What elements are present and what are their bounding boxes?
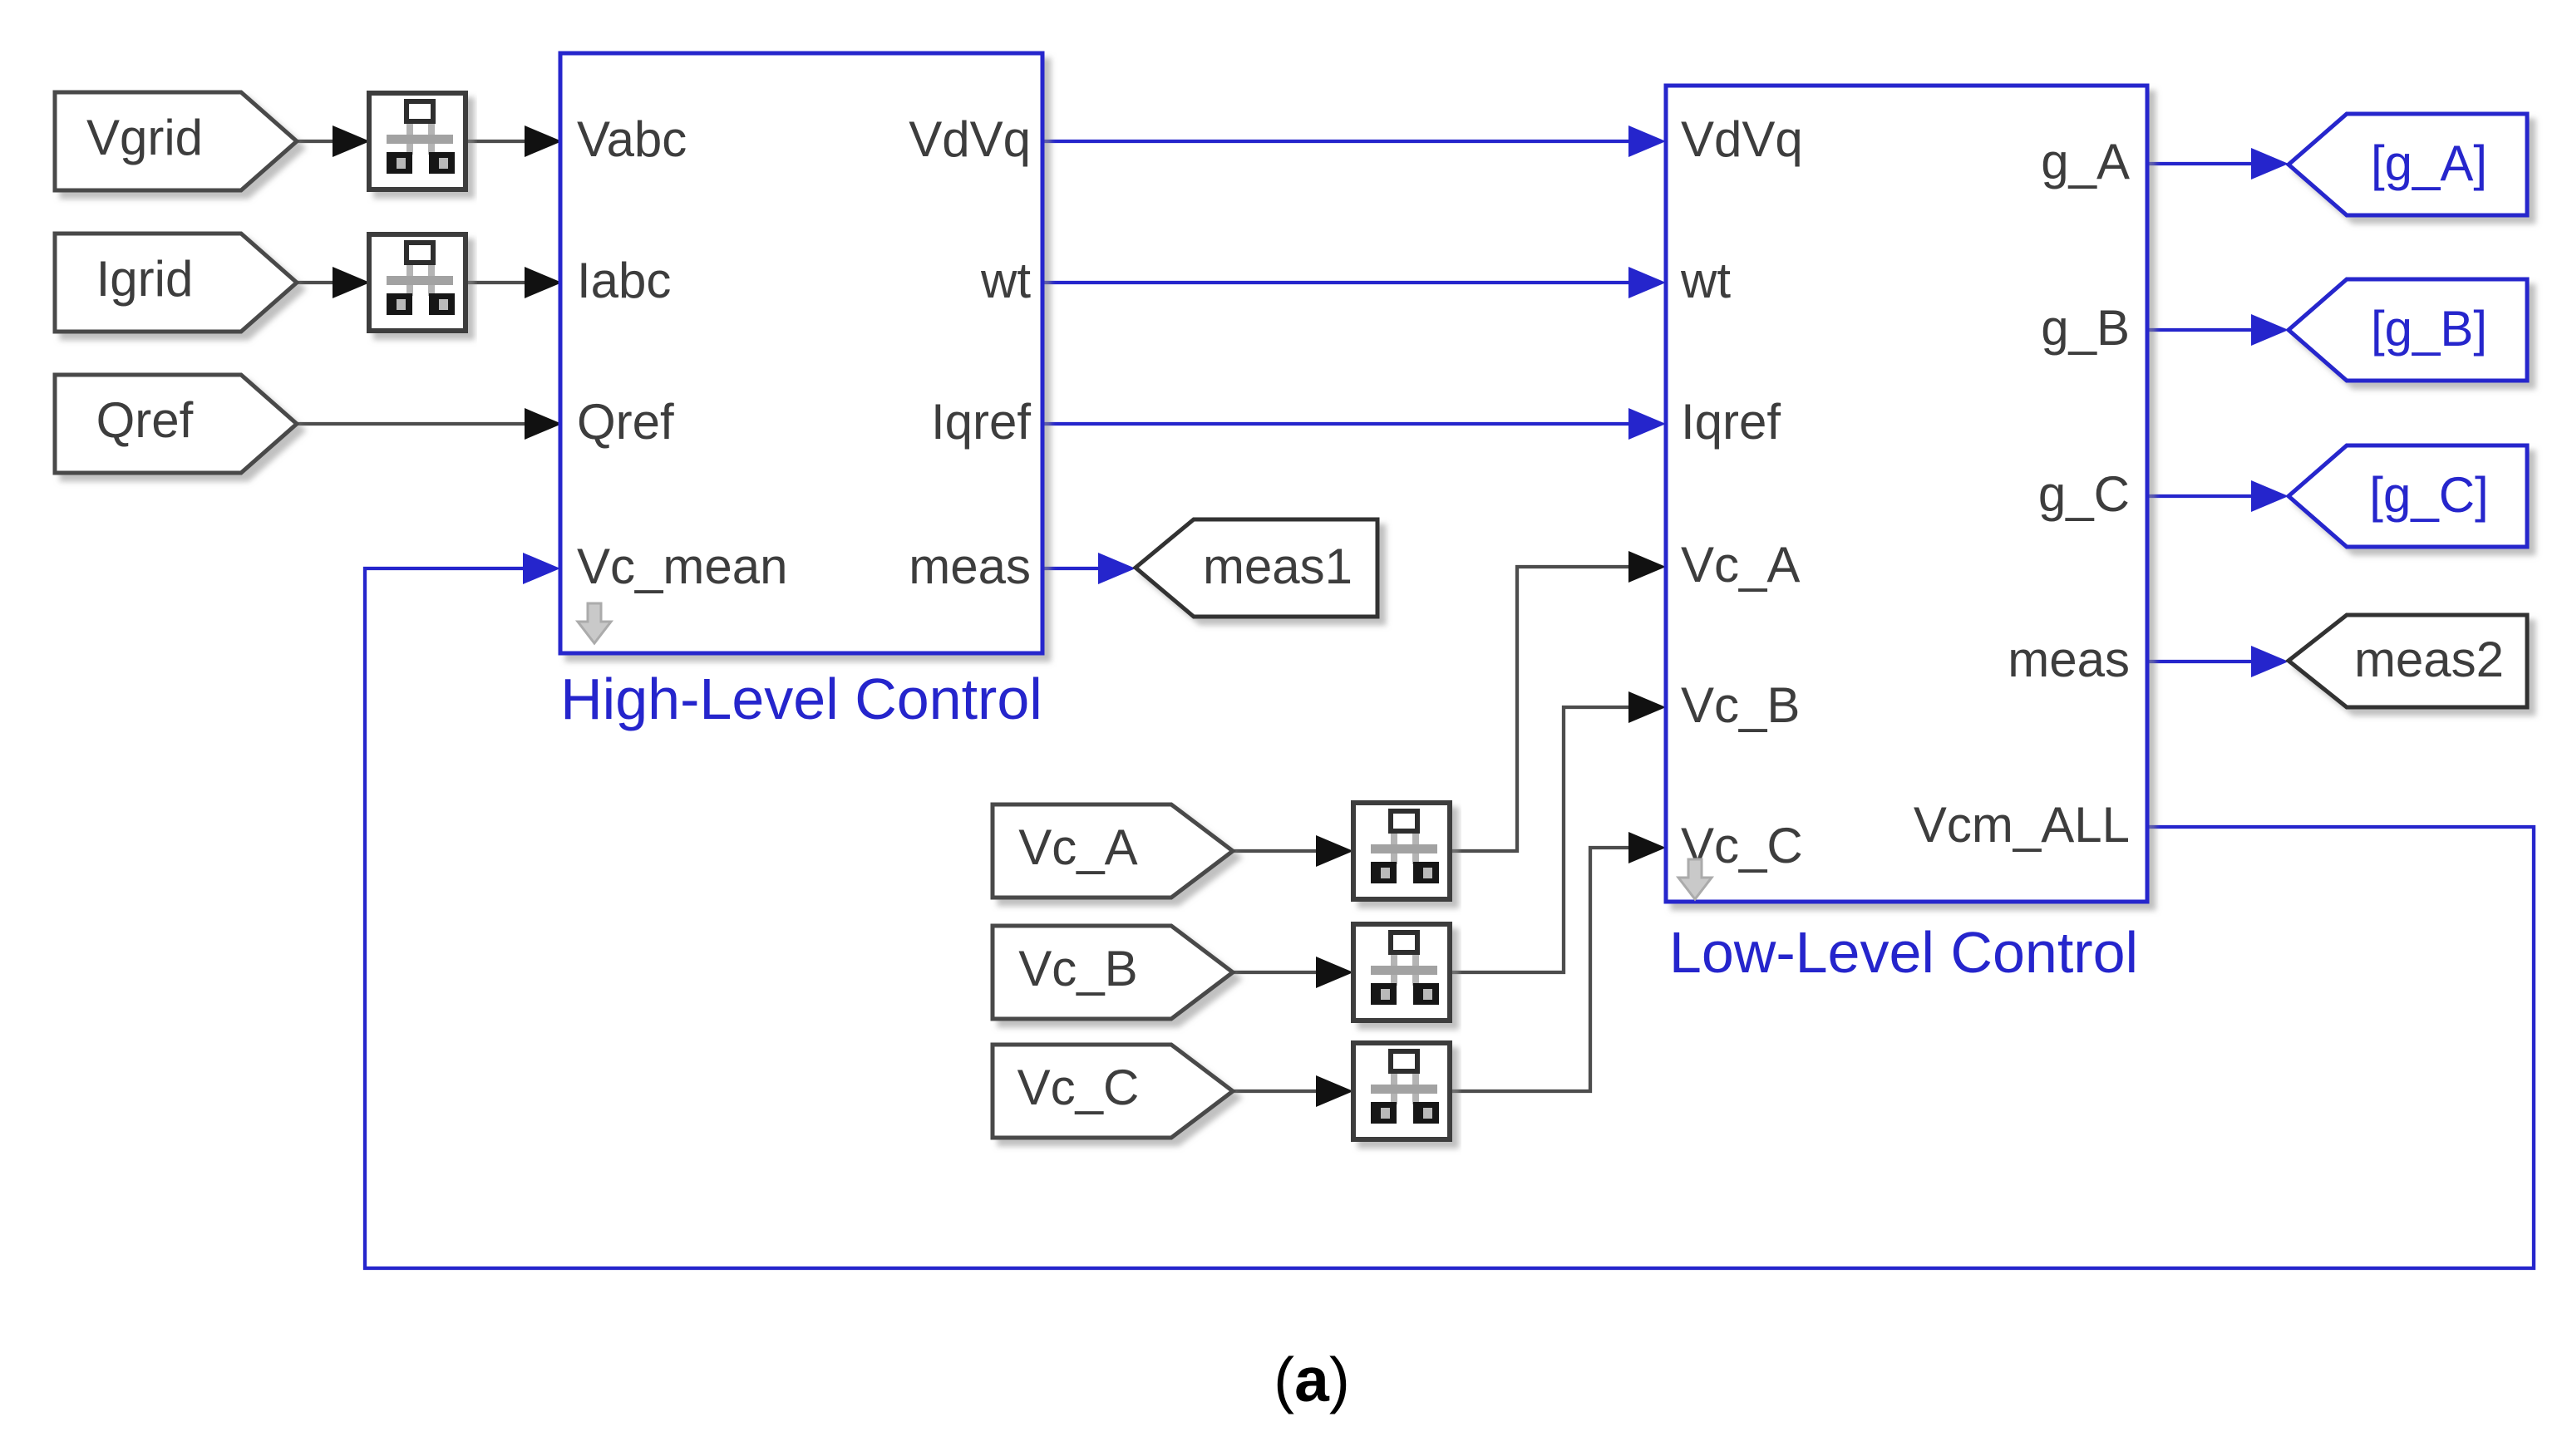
wire g_C	[2147, 494, 2254, 498]
wire wt	[1042, 281, 1631, 284]
wire Vgrid to rate-transition RT1	[297, 140, 338, 143]
svg-text:Iqref: Iqref	[931, 394, 1031, 450]
svg-text:[g_A]: [g_A]	[2371, 135, 2487, 191]
svg-text:g_B: g_B	[2041, 300, 2130, 356]
svg-text:Vgrid: Vgrid	[86, 110, 203, 165]
svg-text:Iabc: Iabc	[577, 253, 671, 308]
svg-text:Vc_B: Vc_B	[1681, 677, 1800, 733]
svg-text:meas: meas	[909, 539, 1031, 594]
goto tag g_C	[2289, 445, 2527, 547]
wire Iqref	[1042, 422, 1631, 425]
svg-text:meas2: meas2	[2354, 632, 2504, 687]
rate transition RT1	[369, 93, 466, 189]
wire meas to meas2	[2147, 660, 2254, 663]
wire RT4 to Vc_B port	[1450, 707, 1631, 972]
svg-text:[g_B]: [g_B]	[2371, 301, 2487, 357]
rate transition RT5	[1353, 1043, 1450, 1139]
source tag Vc_A	[993, 804, 1233, 898]
svg-text:g_C: g_C	[2038, 466, 2130, 522]
source tag Vc_C	[993, 1045, 1233, 1138]
wire Qref to Qref port	[297, 422, 529, 425]
wire Igrid to RT2	[297, 281, 338, 284]
goto tag g_B	[2289, 279, 2527, 381]
svg-text:Low-Level Control: Low-Level Control	[1669, 920, 2138, 985]
svg-text:Vcm_ALL: Vcm_ALL	[1914, 797, 2130, 853]
wire RT2 to Iabc	[466, 281, 529, 284]
wire VdVq	[1042, 140, 1631, 143]
svg-text:Vc_C: Vc_C	[1017, 1060, 1140, 1115]
svg-text:VdVq: VdVq	[909, 111, 1031, 167]
source tag Qref	[55, 375, 297, 473]
wire Vc_C tag to RT5	[1233, 1090, 1321, 1093]
svg-text:Iqref: Iqref	[1681, 394, 1781, 450]
subsystem High-Level Control	[560, 53, 1042, 653]
wire g_A	[2147, 162, 2254, 165]
wire Vcm_ALL feedback to Vc_mean	[365, 568, 2534, 1268]
wire Vc_B tag to RT4	[1233, 971, 1321, 974]
source tag Igrid	[55, 234, 297, 332]
svg-text:Vc_A: Vc_A	[1018, 819, 1137, 875]
wire g_B	[2147, 328, 2254, 332]
source tag Vgrid	[55, 92, 297, 190]
svg-text:wt: wt	[1680, 253, 1731, 308]
svg-text:Igrid: Igrid	[96, 251, 194, 307]
wire meas to meas1	[1042, 567, 1102, 570]
wire RT1 to Vabc	[466, 140, 529, 143]
goto tag meas2	[2289, 615, 2527, 707]
goto tag meas1	[1136, 519, 1377, 617]
wire RT3 to Vc_A port	[1450, 567, 1631, 851]
rate transition RT2	[369, 234, 466, 331]
svg-text:[g_C]: [g_C]	[2369, 467, 2488, 523]
svg-text:Qref: Qref	[96, 392, 194, 448]
svg-text:Qref: Qref	[577, 394, 674, 450]
svg-text:meas1: meas1	[1203, 539, 1352, 594]
svg-text:meas: meas	[2008, 632, 2130, 687]
svg-text:High-Level Control: High-Level Control	[560, 667, 1042, 731]
svg-text:VdVq: VdVq	[1681, 111, 1803, 167]
svg-text:wt: wt	[980, 253, 1031, 308]
svg-text:Vc_mean: Vc_mean	[577, 539, 787, 594]
svg-text:Vc_A: Vc_A	[1681, 537, 1800, 593]
svg-text:g_A: g_A	[2041, 134, 2130, 189]
rate transition RT4	[1353, 924, 1450, 1021]
svg-text:Vabc: Vabc	[577, 111, 687, 167]
subsystem Low-Level Control	[1666, 86, 2147, 902]
svg-text:Vc_B: Vc_B	[1018, 941, 1137, 996]
goto tag g_A	[2289, 114, 2527, 215]
source tag Vc_B	[993, 926, 1233, 1019]
rate transition RT3	[1353, 803, 1450, 899]
wire Vc_A tag to RT3	[1233, 849, 1321, 853]
wire RT5 to Vc_C port	[1450, 848, 1631, 1091]
svg-text:(a): (a)	[1274, 1345, 1350, 1414]
